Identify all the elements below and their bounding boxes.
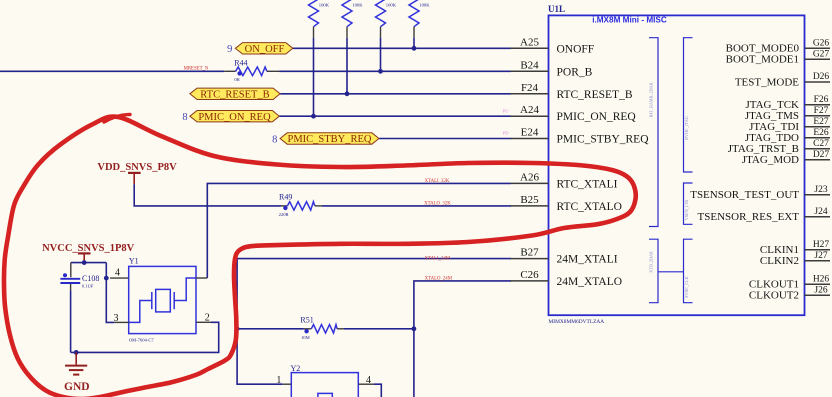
svg-text:PMIC_ON_REQ: PMIC_ON_REQ <box>557 111 637 123</box>
svg-text:8VDC_CLK: 8VDC_CLK <box>684 276 689 297</box>
svg-text:100K: 100K <box>419 2 430 7</box>
svg-text:E26: E26 <box>813 128 829 138</box>
svg-text:9: 9 <box>227 44 232 55</box>
junction RTC_RESET_B / pull-up #2 <box>345 91 350 96</box>
svg-text:MIMX8MM6DVTLZAA: MIMX8MM6DVTLZAA <box>549 319 605 325</box>
svg-text:XTALI_24M: XTALI_24M <box>425 256 451 261</box>
wire ground rail bottom <box>71 322 219 352</box>
resistor 100K #3 (to POR_B) <box>376 0 397 38</box>
resistor R44 0R <box>224 59 279 82</box>
pin JTAG_TRST_B C27 <box>728 139 830 155</box>
svg-text:0.1UF: 0.1UF <box>82 283 94 288</box>
svg-text:RTC_XTALO: RTC_XTALO <box>557 201 622 213</box>
wire C108 to ground rail <box>70 291 72 353</box>
pin 1 stub (to RTC_XTALI) <box>196 277 207 279</box>
wire PMIC_ON_REQ net <box>279 115 511 117</box>
pin 24M_XTALI B27 <box>511 247 618 266</box>
svg-text:ONOFF: ONOFF <box>557 43 595 55</box>
svg-text:J26: J26 <box>814 285 827 295</box>
svg-text:PMIC_STBY_REQ: PMIC_STBY_REQ <box>557 134 650 146</box>
svg-text:BVDC_JTAG: BVDC_JTAG <box>684 116 689 140</box>
svg-text:PMIC_STBY_REQ: PMIC_STBY_REQ <box>287 134 371 145</box>
svg-text:BOOT_MODE1: BOOT_MODE1 <box>726 54 799 66</box>
svg-text:G27: G27 <box>813 50 830 60</box>
svg-text:100K: 100K <box>319 2 330 7</box>
svg-text:XTALO_32K: XTALO_32K <box>424 201 451 206</box>
wire pull-up #3 vertical <box>380 38 382 71</box>
svg-text:C26: C26 <box>520 269 539 281</box>
resistor R51 10M <box>237 316 414 340</box>
port ON_OFF <box>227 43 293 56</box>
junction GND stub <box>74 350 79 355</box>
pin 2 stub <box>196 321 211 323</box>
svg-text:8: 8 <box>182 112 187 123</box>
svg-text:TSENSOR_RES_EXT: TSENSOR_RES_EXT <box>698 211 800 223</box>
node group bracket pair (XTAL / CLK pins) <box>649 239 693 303</box>
svg-text:G26: G26 <box>813 38 830 48</box>
resistor R49 220R <box>279 192 322 217</box>
svg-text:JTAG_MOD: JTAG_MOD <box>742 154 799 166</box>
wire VDD_SNVS_P8V to R49 <box>134 184 281 206</box>
red annotation pen overshoot at top <box>104 115 130 123</box>
svg-text:GND: GND <box>64 381 90 393</box>
resistor 100K #2 (to RTC_RESET_B) <box>342 0 363 38</box>
svg-text:100K: 100K <box>386 2 397 7</box>
svg-text:OM-7604-C7: OM-7604-C7 <box>129 337 155 342</box>
wire POR_B net (right of R44) <box>280 70 512 72</box>
junction Y1 pin 4 tap <box>104 276 109 281</box>
svg-text:R49: R49 <box>279 192 292 201</box>
svg-text:F24: F24 <box>521 82 539 94</box>
svg-text:VSEN_1TR: VSEN_1TR <box>684 200 689 221</box>
pin ONOFF A25 <box>511 36 595 55</box>
ground <box>64 352 90 392</box>
svg-text:220R: 220R <box>279 212 290 217</box>
capacitor C108 0.1UF <box>60 263 99 291</box>
pin 1 stub <box>283 383 292 385</box>
Y1 internal crystal symbol <box>156 289 171 312</box>
wire 24M_XTALI net: chip B27 left then down to Y2 pin 1 <box>237 259 511 385</box>
svg-text:F27: F27 <box>814 106 829 116</box>
wire MRESET_N net (left of R44) <box>0 70 224 72</box>
svg-text:J27: J27 <box>814 251 827 261</box>
svg-text:J24: J24 <box>814 207 827 217</box>
svg-text:PD: PD <box>503 131 510 136</box>
resistor 100K #4 (to ONOFF) <box>409 0 430 38</box>
svg-text:XTALO_24M: XTALO_24M <box>425 277 453 282</box>
junction POR_B / pull-up #3 <box>378 69 383 74</box>
wire pull-up #4 vertical <box>413 38 415 48</box>
svg-text:POR_B: POR_B <box>557 66 593 78</box>
Y2 internal crystal symbol (clipped) <box>318 393 332 397</box>
svg-text:D27: D27 <box>813 150 830 160</box>
pin CLKIN2 J27 <box>760 251 830 267</box>
svg-text:10M: 10M <box>301 335 310 340</box>
pin TEST_MODE D26 <box>735 72 830 88</box>
wire pull-up #1 vertical <box>313 38 315 116</box>
svg-text:TEST_MODE: TEST_MODE <box>735 76 799 88</box>
svg-text:4: 4 <box>115 268 120 279</box>
pin 4 stub <box>110 277 129 279</box>
svg-text:RTC_XTALI: RTC_XTALI <box>557 178 618 190</box>
node group bracket right (BOOT/JTAG pins) <box>684 38 693 172</box>
pin POR_B B24 <box>511 59 593 78</box>
pin RTC_XTALI A26 <box>511 171 618 190</box>
node group bracket left (SNVS pins) <box>649 38 659 227</box>
wire 24M_XTALO net: chip C26 left then down to bottom <box>414 281 511 397</box>
svg-text:F26: F26 <box>814 95 829 105</box>
wire RTC_XTALO net to chip B25 <box>322 205 511 207</box>
svg-text:24M_XTALI: 24M_XTALI <box>557 254 618 266</box>
svg-text:PMIC_ON_REQ: PMIC_ON_REQ <box>198 112 271 123</box>
svg-text:R51: R51 <box>300 316 313 325</box>
svg-text:U1L: U1L <box>548 4 565 14</box>
wire NVCC down to Y1 pins 4/3 <box>106 263 114 323</box>
pin TSENSOR_TEST_OUT J23 <box>690 185 830 201</box>
crystal Y1 OM-7604-C7 <box>110 256 211 342</box>
svg-text:3: 3 <box>114 313 119 324</box>
wire RTC_RESET_B net <box>280 93 511 95</box>
pin JTAG_TDI E27 <box>749 117 830 133</box>
wire RTC_XTALI net: chip A26 left then down to Y1 <box>207 183 511 278</box>
svg-text:8: 8 <box>272 134 277 145</box>
red hand-drawn annotation loop <box>4 117 636 397</box>
pin BOOT_MODE0 G26 <box>726 38 830 54</box>
pin 4 stub <box>358 383 374 385</box>
svg-text:VDD_SNVS_P8V: VDD_SNVS_P8V <box>97 162 177 173</box>
svg-text:TSENSOR_TEST_OUT: TSENSOR_TEST_OUT <box>690 189 799 201</box>
wire NVCC rail horizontal <box>71 262 107 264</box>
svg-text:MRESET_N: MRESET_N <box>184 67 209 72</box>
pin 3 stub <box>114 321 128 323</box>
svg-text:A24: A24 <box>520 104 539 116</box>
power symbol NVCC_SNVS_1P8V <box>42 243 135 263</box>
svg-text:E27: E27 <box>813 117 829 127</box>
junction ONOFF / pull-up #4 <box>412 46 417 51</box>
pin 24M_XTALO C26 <box>511 269 623 288</box>
pin PMIC_ON_REQ A24 <box>503 104 637 123</box>
pin CLKOUT2 J26 <box>749 285 830 301</box>
svg-text:B25: B25 <box>520 194 539 206</box>
svg-text:2: 2 <box>205 312 210 323</box>
svg-text:ON_OFF: ON_OFF <box>245 44 285 55</box>
svg-text:Y1: Y1 <box>129 256 139 265</box>
junction R51 right / 24M_XTALO vertical <box>412 326 417 331</box>
op-amp U1L body <box>549 15 805 315</box>
svg-text:J23: J23 <box>814 185 827 195</box>
crystal Y2 <box>276 364 381 397</box>
port PMIC_ON_REQ <box>182 111 279 124</box>
pin CLKIN1 H27 <box>760 240 830 256</box>
wire PMIC_STBY_REQ net <box>379 138 511 140</box>
wire pull-up #2 vertical <box>346 38 348 94</box>
svg-text:B27: B27 <box>520 247 539 259</box>
pin BOOT_MODE1 G27 <box>726 50 830 66</box>
pin RTC_XTALO B25 <box>511 194 622 213</box>
svg-text:RTC_RESET_B: RTC_RESET_B <box>557 89 633 101</box>
junction NVCC stem <box>82 260 87 265</box>
pin CLKOUT1 H26 <box>749 274 830 290</box>
svg-text:C108: C108 <box>82 274 99 283</box>
svg-text:CLKIN2: CLKIN2 <box>760 255 799 267</box>
svg-text:XTD_2DAR: XTD_2DAR <box>649 251 654 273</box>
svg-text:B24: B24 <box>520 59 539 71</box>
svg-text:PU: PU <box>503 108 510 113</box>
svg-text:C27: C27 <box>813 139 829 149</box>
svg-text:CLKOUT2: CLKOUT2 <box>749 290 799 302</box>
wire ONOFF net <box>293 47 511 49</box>
svg-text:RTC_RESET_B: RTC_RESET_B <box>200 90 269 101</box>
svg-text:A26: A26 <box>520 171 539 183</box>
junction R51 left / 24M_XTALI vertical <box>235 326 240 331</box>
svg-text:E24: E24 <box>521 127 539 139</box>
pin TSENSOR_RES_EXT J24 <box>698 207 830 223</box>
port RTC_RESET_B <box>190 88 280 100</box>
resistor 100K #1 (to PMIC_ON_REQ) <box>309 0 330 38</box>
pin JTAG_TDO E26 <box>745 128 830 144</box>
svg-text:H26: H26 <box>813 274 830 284</box>
svg-text:0R: 0R <box>234 77 240 82</box>
svg-text:NVCC_SNVS_1P8V: NVCC_SNVS_1P8V <box>42 243 135 254</box>
svg-text:24M_XTALO: 24M_XTALO <box>557 276 623 288</box>
svg-text:i.MX8M Mini - MISC: i.MX8M Mini - MISC <box>592 16 667 25</box>
pin JTAG_MOD D27 <box>742 150 830 166</box>
svg-text:D26: D26 <box>813 72 830 82</box>
power symbol VDD_SNVS_P8V <box>97 162 177 184</box>
node group bracket right (TSENSOR pins) <box>684 183 693 224</box>
junction PMIC_ON_REQ / pull-up #1 <box>311 114 316 119</box>
svg-text:100K: 100K <box>352 2 363 7</box>
pin RTC_RESET_B F24 <box>511 82 633 101</box>
pin JTAG_TCK F26 <box>745 95 830 111</box>
wire Y2 pin4 down <box>374 384 381 397</box>
port PMIC_STBY_REQ <box>272 133 379 146</box>
pin PMIC_STBY_REQ E24 <box>503 127 649 146</box>
svg-text:B4T_RAMB_2DAR: B4T_RAMB_2DAR <box>649 82 654 117</box>
pin JTAG_TMS F27 <box>745 106 830 122</box>
svg-text:A25: A25 <box>520 36 539 48</box>
svg-text:H27: H27 <box>813 240 830 250</box>
svg-text:4: 4 <box>366 375 371 386</box>
svg-text:XTALI_32K: XTALI_32K <box>425 179 450 184</box>
svg-text:Y2: Y2 <box>291 364 301 373</box>
svg-text:R44: R44 <box>234 59 247 68</box>
svg-text:1: 1 <box>276 375 281 386</box>
